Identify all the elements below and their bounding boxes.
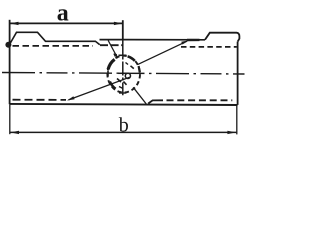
arrowhead of upper-right spoke bbox=[181, 40, 189, 44]
small dash left of top tick bbox=[114, 54, 116, 57]
right extension line for b bbox=[236, 105, 238, 134]
right edge of part bbox=[237, 42, 239, 105]
hidden dashed line lower-right bbox=[167, 99, 233, 101]
circle top quadrant tick bbox=[119, 54, 127, 56]
hidden dashed segment to centerline bbox=[100, 44, 123, 46]
center cross tick bbox=[118, 72, 127, 74]
long diagonal spoke upper-right bbox=[138, 41, 187, 64]
dimension b left arrowhead bbox=[10, 131, 19, 134]
dimension a line / top edge of part bbox=[10, 22, 123, 24]
inner speck marks bbox=[117, 79, 121, 83]
node dot on left edge bbox=[5, 42, 11, 48]
circle left quadrant tick bbox=[107, 71, 109, 77]
hidden dashed hole circle bbox=[107, 56, 140, 93]
arrowhead of lower-left spoke bbox=[67, 96, 75, 100]
thick upper-left arc dash of circle bbox=[108, 59, 115, 69]
svg-text:b: b bbox=[119, 114, 129, 136]
left extension line for b bbox=[9, 104, 11, 134]
bottom edge of part bbox=[10, 104, 238, 105]
hidden dashed line upper-left bbox=[13, 45, 94, 47]
dimension a right arrowhead bbox=[114, 22, 123, 25]
hidden dashed line lower-left bbox=[13, 99, 67, 101]
interior stepped solid line left bbox=[10, 32, 100, 45]
dimension a left arrowhead bbox=[10, 22, 19, 25]
thick upper-right arc dash of circle bbox=[128, 56, 135, 61]
mid top edge bbox=[100, 39, 206, 41]
small inner circle bbox=[125, 73, 130, 78]
thick lower-left arc dash of circle bbox=[110, 82, 116, 89]
left edge of part bbox=[9, 20, 11, 104]
rising tail of lower-right hidden line bbox=[148, 100, 163, 103]
step edge / extension line at right end of a bbox=[122, 20, 124, 40]
svg-text:a: a bbox=[57, 1, 69, 27]
hidden dashed line under boss bbox=[181, 46, 237, 48]
dimension b line bbox=[10, 131, 236, 133]
boss outline top right bbox=[205, 33, 239, 42]
arrowhead of steep spoke bbox=[114, 54, 118, 59]
horizontal centerline dash-dot bbox=[2, 73, 245, 75]
steep diagonal spoke upper-left bbox=[108, 41, 117, 57]
scan thickening of top edge right of arrow bbox=[187, 39, 200, 41]
vertical centerline of hole bbox=[122, 41, 124, 96]
dimension b right arrowhead bbox=[227, 131, 236, 134]
bottom tick of vertical centerline bbox=[119, 92, 126, 94]
long diagonal spoke lower-left bbox=[69, 77, 130, 100]
short diagonal spoke lower-right bbox=[133, 87, 146, 104]
heavy right-side bar of circle bbox=[139, 66, 140, 73]
